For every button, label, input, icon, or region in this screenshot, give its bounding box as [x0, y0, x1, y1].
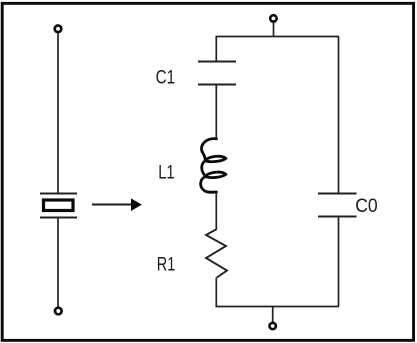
wire: top rail: [216, 36, 340, 38]
arrow (equivalence): [92, 198, 142, 211]
capacitor C0: [318, 194, 357, 217]
wire: right branch top (rail to C0): [338, 37, 340, 194]
svg-text:L1: L1: [158, 162, 175, 184]
node: crystal top terminal: [55, 26, 62, 33]
node: equivalent circuit top terminal: [270, 15, 276, 21]
wire: bottom rail: [216, 306, 340, 308]
wire: L1 to R1: [215, 192, 217, 229]
resistor R1: [206, 229, 227, 278]
inductor L1: [201, 139, 226, 193]
crystal (quartz) symbol: [40, 194, 77, 218]
svg-text:C0: C0: [355, 195, 378, 217]
node: equivalent circuit bottom terminal: [270, 323, 276, 329]
wire: top terminal stub: [273, 23, 275, 37]
wire: right branch bottom (C0 to rail): [338, 217, 340, 307]
wire: crystal to bottom terminal: [57, 218, 59, 307]
wire: bottom terminal stub: [272, 307, 274, 323]
svg-text:R1: R1: [157, 254, 176, 276]
node: crystal bottom terminal: [55, 308, 62, 315]
wire: C1 to L1: [215, 85, 217, 138]
wire: R1 to bottom rail: [215, 278, 217, 308]
capacitor C1: [198, 62, 236, 85]
wire: top rail to C1: [215, 37, 217, 62]
svg-text:C1: C1: [156, 67, 176, 89]
wire: crystal top terminal to crystal: [57, 33, 59, 194]
